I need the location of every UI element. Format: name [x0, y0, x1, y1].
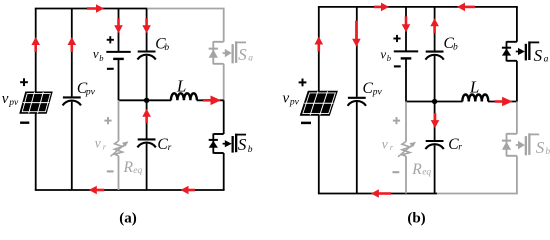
- svg-text:S: S: [238, 135, 247, 154]
- wire: (b) left vertical: [318, 7, 320, 194]
- plus vr: [104, 117, 111, 124]
- svg-text:b: b: [453, 43, 458, 53]
- wire: (b) Cb branch upper: [434, 7, 436, 51]
- wire: (b) top: [318, 6, 518, 8]
- PV panel (a): [20, 92, 52, 113]
- wire: (a) vb branch lower: [118, 59, 120, 100]
- svg-text:r: r: [103, 141, 107, 151]
- svg-text:(b): (b): [407, 211, 425, 227]
- plus vb: [107, 36, 114, 43]
- label Cr (b): [448, 136, 462, 153]
- svg-text:R: R: [411, 161, 422, 178]
- svg-text:pv: pv: [85, 87, 96, 97]
- wire: (a) right gray below Sa: [223, 64, 225, 101]
- wire: (b) vb branch lower: [405, 59, 407, 102]
- wire: (a) left vertical: [35, 9, 37, 191]
- capacitor Cb (b): [425, 52, 443, 60]
- svg-text:v: v: [283, 91, 290, 107]
- svg-text:a: a: [544, 54, 549, 64]
- label vb (b): [380, 46, 391, 63]
- current arrow (a) top right: [87, 4, 104, 13]
- transistor Sb (active): [209, 134, 246, 154]
- plus vr (b): [393, 117, 400, 124]
- wire: (a) Cb branch upper: [146, 9, 148, 51]
- label Cpv (b): [363, 80, 383, 97]
- svg-text:eq: eq: [422, 168, 431, 178]
- label Req: [123, 159, 143, 176]
- wire: (a) Req branch lower: [118, 156, 120, 190]
- wire: (a) Cb branch lower: [146, 56, 148, 101]
- svg-text:b: b: [99, 53, 103, 63]
- plus vb (b): [393, 35, 400, 42]
- capacitor Cpv: [63, 97, 81, 105]
- label Cb (b): [444, 35, 459, 53]
- current arrow (b) bottom left: [371, 189, 391, 198]
- wire: (b) Cr branch lower: [434, 145, 436, 193]
- svg-text:pv: pv: [8, 98, 19, 108]
- current arrow (b) top left: [457, 3, 475, 12]
- current arrow (b) Cr down: [431, 113, 440, 128]
- wire: (a) Sb branch upper: [223, 100, 225, 134]
- label Sa: [238, 45, 253, 64]
- transistor Sb (inactive): [502, 133, 539, 156]
- current arrow (a) Cb down: [142, 18, 151, 33]
- transistor Sa (inactive): [209, 41, 246, 64]
- minus vr (b): [393, 171, 400, 173]
- svg-text:b: b: [545, 147, 550, 157]
- wire: (a) Cr branch lower: [146, 144, 148, 190]
- current arrow (a) Cr up: [142, 109, 151, 124]
- wire: (b) bottom gray segment: [437, 193, 518, 195]
- capacitor Cr: [137, 139, 155, 147]
- transistor Sa (active): [502, 41, 539, 61]
- wire: (b) right above Sa: [516, 7, 518, 42]
- wire: (a) top gray segment: [147, 8, 225, 10]
- label vr: [95, 136, 107, 152]
- voltage source vb: [106, 52, 130, 59]
- svg-text:b: b: [164, 43, 169, 53]
- current arrow (b) left up: [315, 37, 324, 52]
- svg-text:v: v: [93, 46, 99, 61]
- capacitor Cr (b): [425, 141, 443, 149]
- svg-text:r: r: [168, 143, 172, 153]
- wire: (b) vb branch upper: [405, 7, 407, 51]
- current arrow (a) L right: [203, 96, 221, 106]
- current arrow (b) top right: [374, 3, 389, 12]
- label vpv (b): [283, 91, 300, 108]
- wire: (b) Cpv branch upper: [356, 7, 358, 97]
- label Cb: [155, 35, 169, 53]
- minus vpv: [20, 121, 29, 123]
- label vb: [93, 46, 104, 63]
- PV panel (b): [300, 91, 337, 115]
- label L: [176, 77, 186, 96]
- svg-text:L: L: [176, 77, 186, 96]
- capacitor Cb: [137, 52, 155, 60]
- inductor L: [171, 93, 197, 100]
- voltage source vb (b): [394, 51, 418, 58]
- wire: (a) vb branch upper: [118, 9, 120, 52]
- current arrow (b) Cb up: [430, 18, 439, 33]
- svg-text:r: r: [458, 143, 462, 153]
- label Sa (b): [534, 46, 549, 65]
- wire: (a) middle horizontal left: [119, 99, 172, 101]
- wire: (a) top black segment: [35, 8, 147, 10]
- resistor Req (equivalent load): [111, 141, 129, 156]
- label Req (b): [411, 161, 431, 178]
- wire: (b) Sb branch lower: [516, 156, 518, 194]
- current arrow (b) Cpv down: [352, 21, 361, 47]
- wire: (b) Req branch lower: [405, 156, 407, 193]
- wire: (a) bottom: [35, 189, 225, 191]
- svg-text:b: b: [248, 145, 253, 155]
- svg-text:S: S: [238, 45, 247, 64]
- current arrow (a) bottom left 1: [89, 186, 105, 195]
- resistor Req (b): [398, 142, 416, 157]
- wire: (b) Cpv branch lower: [356, 102, 358, 194]
- label vr (b): [382, 137, 394, 153]
- wire: (b) Cr branch upper: [434, 102, 436, 141]
- current arrow (a) bottom left 2: [181, 186, 196, 195]
- svg-text:a: a: [248, 54, 253, 64]
- svg-text:r: r: [390, 142, 394, 152]
- plus vpv: [20, 78, 28, 86]
- current arrow (b) vb down: [402, 16, 411, 32]
- minus vb: [107, 68, 114, 70]
- label vpv: [2, 91, 19, 108]
- svg-text:S: S: [536, 138, 545, 157]
- svg-text:b: b: [387, 53, 391, 63]
- wire: (b) Sb branch upper: [516, 102, 518, 134]
- wire: (b) middle horizontal left: [406, 101, 463, 103]
- minus vpv (b): [301, 122, 311, 125]
- label L (b): [469, 78, 479, 97]
- svg-text:v: v: [95, 136, 101, 151]
- wire: (a) right gray above Sa: [223, 9, 225, 42]
- svg-text:v: v: [380, 46, 386, 61]
- wire: (a) Cpv branch upper: [71, 9, 73, 97]
- svg-text:S: S: [534, 46, 543, 65]
- svg-text:v: v: [382, 137, 388, 152]
- svg-text:L: L: [469, 78, 479, 97]
- wire: (a) Sb branch lower: [223, 153, 225, 190]
- svg-text:(a): (a): [119, 211, 137, 227]
- label Sb (b): [536, 138, 550, 157]
- wire: (b) Req branch upper: [405, 102, 407, 142]
- current arrow (a) vb down: [114, 18, 123, 33]
- label Sb: [238, 135, 253, 155]
- wire: (a) middle horizontal right: [197, 99, 224, 101]
- svg-text:pv: pv: [289, 97, 300, 107]
- svg-text:v: v: [2, 91, 9, 107]
- label Cr: [157, 136, 171, 153]
- label Cpv: [77, 80, 96, 98]
- node: junction (a) mid: [144, 98, 149, 103]
- wire: (a) Cr branch upper: [146, 100, 148, 138]
- minus vr: [107, 170, 114, 172]
- wire: (a) Req branch upper: [118, 100, 120, 141]
- current arrow (a) left up: [31, 37, 40, 52]
- wire: (a) Cpv branch lower: [71, 102, 73, 190]
- plus vpv (b): [299, 79, 307, 87]
- inductor L (b): [462, 95, 488, 102]
- wire: (b) middle horizontal right: [488, 101, 517, 103]
- minus vb (b): [394, 65, 401, 67]
- svg-text:R: R: [123, 159, 134, 176]
- current arrow (b) L right: [495, 97, 513, 107]
- wire: (b) right below Sa: [516, 61, 518, 102]
- svg-text:pv: pv: [372, 87, 383, 97]
- current arrow (a) Cpv up: [68, 37, 77, 52]
- wire: (b) bottom black segment: [318, 193, 437, 195]
- capacitor Cpv (b): [348, 98, 366, 106]
- svg-text:eq: eq: [133, 166, 142, 176]
- node: junction (b) mid: [432, 99, 437, 104]
- wire: (b) Cb branch lower: [434, 56, 436, 102]
